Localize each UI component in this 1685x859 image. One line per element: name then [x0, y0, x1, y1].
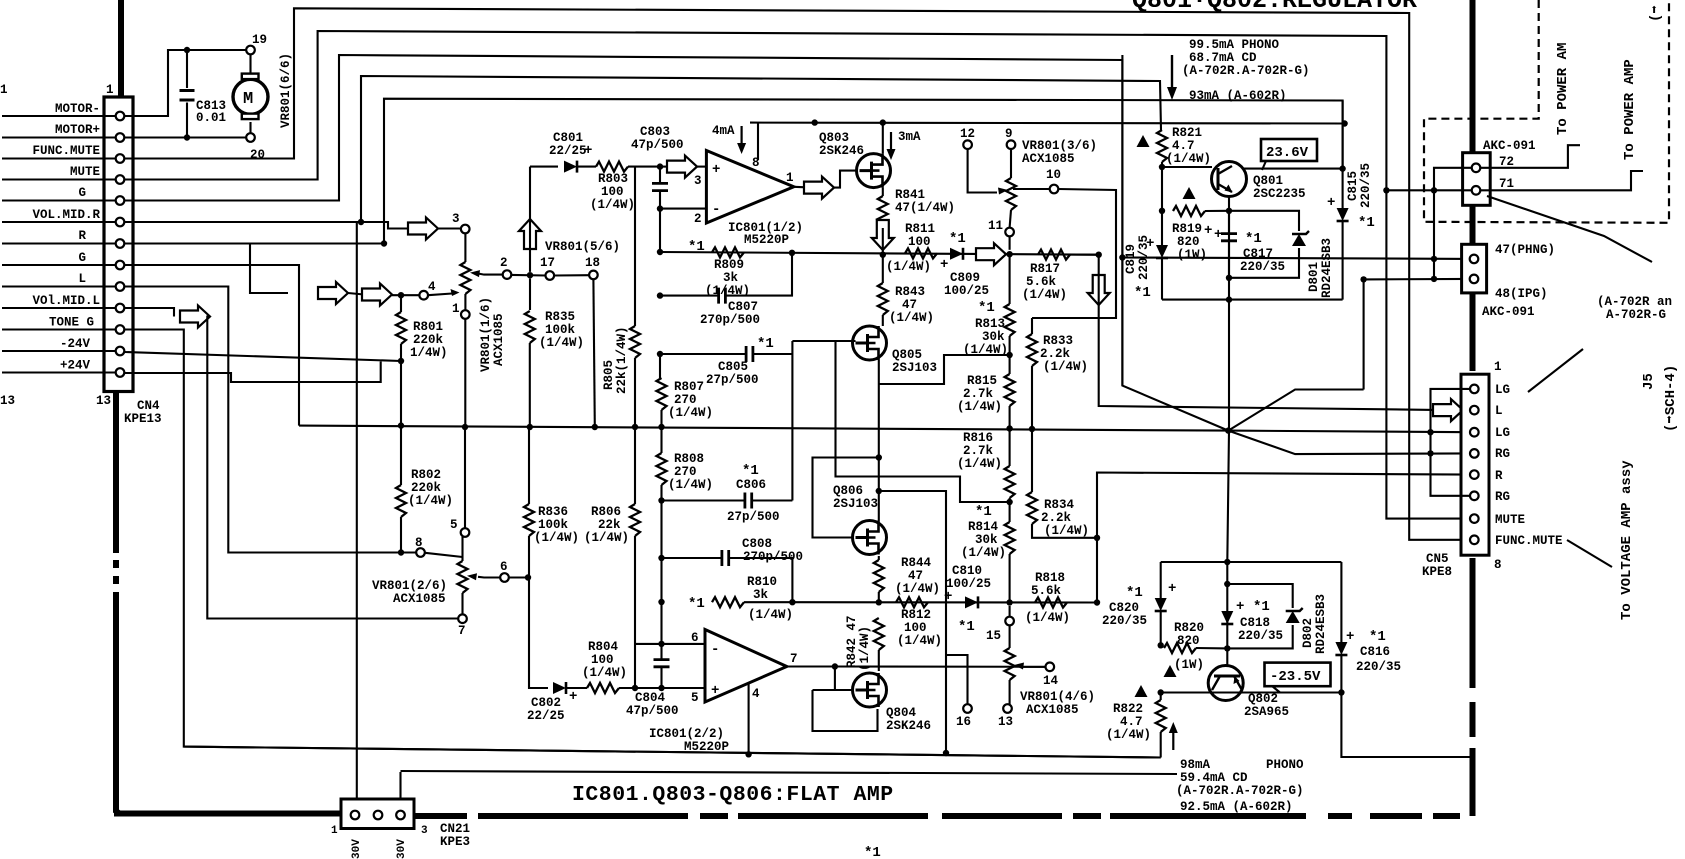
node 48 junction — [1431, 276, 1437, 282]
resistor R809 — [712, 247, 744, 257]
svg-text:VR801(3/6): VR801(3/6) — [1022, 139, 1097, 153]
wire pin2 to column node — [512, 274, 547, 277]
svg-text:20: 20 — [250, 148, 265, 162]
pin 3 of VR801(1/6) — [461, 225, 470, 234]
CN5 pin 1 LG — [1470, 385, 1479, 394]
wire Q805 gate column — [836, 341, 1010, 502]
svg-text:30k: 30k — [975, 533, 998, 547]
svg-text:13: 13 — [96, 394, 111, 408]
svg-text:47: 47 — [902, 298, 917, 312]
svg-text:68.7mA CD: 68.7mA CD — [1189, 51, 1257, 65]
node R806 bus junction — [632, 424, 638, 430]
wiper 2 wire with arrowhead into pot — [478, 274, 503, 275]
svg-text:100: 100 — [908, 235, 931, 249]
CN4 pin 12 (-24V) — [116, 347, 125, 356]
svg-text:(1/4W): (1/4W) — [408, 494, 453, 508]
wire L output to CN5 — [1099, 255, 1434, 410]
capacitor C807 — [660, 253, 792, 304]
svg-text:*1: *1 — [975, 504, 992, 520]
node C808 left junction — [658, 555, 664, 561]
wire output down to Q804 gate — [834, 667, 836, 691]
svg-text:220/35: 220/35 — [1356, 660, 1401, 674]
svg-text:Q806: Q806 — [833, 484, 863, 498]
node R816 R814 junction — [1006, 499, 1012, 505]
node R821 bottom junction — [1159, 164, 1165, 170]
svg-text:R835: R835 — [545, 310, 575, 324]
wire MOTOR+ to motor bottom — [125, 136, 247, 138]
pin 13 of VR801(4/6) — [1003, 704, 1012, 713]
node Q803 column bus junction — [880, 252, 886, 258]
wire Q805 source to R815 — [879, 355, 1010, 384]
svg-text:FUNC.MUTE: FUNC.MUTE — [1495, 534, 1563, 548]
node C804 bottom junction — [658, 685, 664, 691]
node 47 junction — [1431, 256, 1437, 262]
zener D801 RD24ESB3 — [1229, 211, 1309, 278]
wire Q806 drain branch — [879, 491, 946, 753]
svg-text:R805: R805 — [602, 360, 616, 390]
node feed junction 71 — [1431, 187, 1437, 193]
capacitor C803 — [652, 167, 668, 252]
svg-text:VR801(6/6): VR801(6/6) — [279, 53, 293, 128]
block arrow after C809 — [976, 243, 1006, 265]
svg-text:(1/4W): (1/4W) — [748, 608, 793, 622]
wire -24V route to bias column — [125, 352, 402, 361]
svg-text:27p/500: 27p/500 — [706, 373, 759, 387]
wire Q802 base — [1226, 648, 1228, 666]
svg-text:R815: R815 — [967, 374, 997, 388]
svg-text:C820: C820 — [1109, 601, 1139, 615]
wire Q803 drain to rail — [882, 123, 884, 154]
wire L to VR801(2/6) input 8 — [125, 287, 417, 553]
svg-text:C801: C801 — [553, 131, 583, 145]
resistor R815 — [1005, 355, 1015, 429]
svg-text:*1: *1 — [1358, 215, 1375, 231]
svg-text:(1/4W): (1/4W) — [886, 260, 931, 274]
node R813 top junction — [1006, 251, 1012, 257]
svg-text:RG: RG — [1495, 490, 1510, 504]
svg-text:*1: *1 — [1134, 285, 1151, 301]
wire X cross diagonal right — [1228, 431, 1470, 455]
wire +24V route — [125, 362, 381, 383]
svg-text:22/25: 22/25 — [527, 709, 565, 723]
heavy board border bottom solid segment — [114, 811, 341, 817]
resistor R806 — [630, 427, 640, 688]
svg-text:To POWER AMP: To POWER AMP — [1622, 59, 1638, 160]
svg-text:15: 15 — [986, 629, 1001, 643]
svg-text:RD24ESB3: RD24ESB3 — [1320, 238, 1334, 298]
svg-text:C809: C809 — [950, 271, 980, 285]
svg-text:1/4W): 1/4W) — [410, 346, 448, 360]
svg-text:R836: R836 — [538, 505, 568, 519]
node collector junction — [1339, 165, 1345, 171]
svg-text:AKC-091: AKC-091 — [1482, 305, 1535, 319]
wire pin10 to R833 column — [1032, 189, 1116, 318]
capacitor C809 polarized — [950, 248, 963, 260]
wire op-amp1 plus input — [660, 166, 668, 168]
node output junction — [832, 663, 838, 669]
CN21 pin 1 — [351, 811, 360, 820]
wire X cross diagonal up — [1228, 390, 1363, 431]
svg-text:(1/4W): (1/4W) — [961, 546, 1006, 560]
svg-text:G: G — [78, 186, 86, 200]
resistor R814 — [1005, 522, 1015, 603]
node C803 top junction — [657, 163, 663, 169]
CN4 pin 7 (R) — [116, 239, 125, 248]
svg-text:(1/4W): (1/4W) — [534, 531, 579, 545]
pin 5 of VR801(2/6) — [461, 528, 470, 537]
svg-text:220/35: 220/35 — [1238, 629, 1283, 643]
svg-text:R833: R833 — [1043, 334, 1073, 348]
wire op-amp2 minus input — [635, 643, 705, 645]
wiper arrowhead left VR801(1/6) — [451, 289, 460, 296]
svg-text:IC801(2/2): IC801(2/2) — [649, 727, 724, 741]
svg-text:ACX1085: ACX1085 — [1022, 152, 1075, 166]
wire MOTOR- to pin 19 — [125, 50, 247, 116]
node emitter R819 junction — [1226, 208, 1232, 214]
svg-text:(1/4W): (1/4W) — [889, 311, 934, 325]
svg-text:R801: R801 — [413, 320, 443, 334]
node bracket RG4 — [1427, 450, 1433, 456]
svg-text:100/25: 100/25 — [944, 284, 989, 298]
svg-text:C808: C808 — [742, 537, 772, 551]
wire output bus second channel — [792, 601, 1097, 603]
svg-text:AKC-091: AKC-091 — [1483, 139, 1536, 153]
svg-text:(1W): (1W) — [1174, 658, 1204, 672]
wire R821 node down to R819 — [1161, 167, 1163, 211]
wiper arrowhead VR801(4/6) — [1014, 663, 1024, 670]
pin 15 of VR801(4/6) — [1005, 617, 1014, 626]
node bracket LG3 — [1427, 429, 1433, 435]
node R801 top junction — [398, 292, 404, 298]
svg-text:TONE G: TONE G — [49, 316, 94, 330]
svg-text:(1/4W): (1/4W) — [895, 582, 940, 596]
svg-text:(1/4W): (1/4W) — [1022, 288, 1067, 302]
svg-text:13: 13 — [998, 715, 1013, 729]
wire Q806 gate loop — [813, 458, 879, 538]
svg-text:(1/4W): (1/4W) — [897, 634, 942, 648]
svg-text:MOTOR-: MOTOR- — [55, 102, 100, 116]
CN4 pin 4 (MUTE) — [116, 175, 125, 184]
capacitor C808 — [662, 550, 793, 602]
svg-text:R810: R810 — [747, 575, 777, 589]
svg-text:+: + — [1204, 223, 1212, 239]
resistor R844 — [874, 556, 884, 602]
svg-text:(➡SCH-4): (➡SCH-4) — [1663, 365, 1679, 432]
svg-text:3k: 3k — [753, 588, 769, 602]
svg-text:1: 1 — [331, 825, 338, 837]
block arrow to pot pin 3 — [408, 218, 438, 240]
svg-text:3: 3 — [694, 174, 702, 188]
node Q803 drain rail junction — [880, 119, 886, 125]
svg-text:30V: 30V — [396, 839, 408, 859]
svg-text:8: 8 — [1494, 558, 1502, 572]
resistor R802 — [396, 426, 406, 553]
svg-text:VR801(1/6): VR801(1/6) — [479, 297, 493, 372]
svg-text:M5220P: M5220P — [744, 233, 789, 247]
svg-text:To POWER AM: To POWER AM — [1555, 43, 1571, 135]
wire bottom return line — [401, 771, 1178, 774]
svg-text:23.6V: 23.6V — [1266, 145, 1309, 161]
svg-text:+: + — [1214, 227, 1222, 243]
wire op-amp2 pin4 stub — [748, 684, 750, 755]
svg-text:100: 100 — [904, 621, 927, 635]
op-amp U1 IC801(2/2) — [705, 630, 787, 703]
node bus junction at x465 — [462, 424, 468, 430]
wire between arrows — [348, 293, 364, 295]
svg-text:6: 6 — [691, 631, 699, 645]
svg-text:+: + — [569, 689, 577, 705]
svg-text:18: 18 — [585, 256, 600, 270]
svg-text:RD24ESB3: RD24ESB3 — [1314, 594, 1328, 654]
svg-text:(1/4W): (1/4W) — [1043, 360, 1088, 374]
wire emitter to lower regulator — [1227, 431, 1229, 649]
pin 18 mute contact — [589, 271, 598, 280]
svg-text:R818: R818 — [1035, 571, 1065, 585]
svg-text:*1: *1 — [1126, 585, 1143, 601]
svg-text:ACX1085: ACX1085 — [1026, 703, 1079, 717]
resistor R816 — [1005, 429, 1015, 523]
svg-text:+: + — [1146, 236, 1154, 252]
svg-text:R819: R819 — [1172, 222, 1202, 236]
resistor R820 — [1164, 643, 1227, 653]
wire column C801 feed — [529, 167, 531, 310]
wire op-amp2 output — [787, 665, 835, 667]
wire pin8 supply stub — [757, 123, 759, 160]
svg-text:7: 7 — [790, 652, 798, 666]
svg-text:A-702R-G: A-702R-G — [1606, 308, 1666, 322]
svg-text:820: 820 — [1177, 235, 1200, 249]
wire pin16 up — [946, 655, 968, 704]
wire Q804 gate stub — [813, 689, 853, 691]
node R842 top bus junction — [876, 599, 882, 605]
capacitor C810 polarized — [965, 596, 978, 608]
svg-text:22/25: 22/25 — [549, 144, 587, 158]
CN21 pin 3 — [396, 811, 405, 820]
wire FUNC.MUTE long route to CN5 pin8 — [125, 8, 1471, 540]
wire 71 diagonal off — [1487, 196, 1652, 262]
node wire18 bus junction — [592, 424, 598, 430]
callout line to voltage amp — [1528, 349, 1583, 392]
svg-text:*1: *1 — [1245, 231, 1262, 247]
svg-text:FUNC.MUTE: FUNC.MUTE — [32, 144, 100, 158]
current arrow 4mA — [737, 126, 746, 154]
wire R841 to bus junction — [882, 228, 884, 255]
svg-text:*1: *1 — [742, 463, 759, 479]
block arrow 2 on R path — [362, 284, 392, 306]
wire Q801 emitter down — [1228, 197, 1230, 431]
resistor R843 — [878, 255, 888, 326]
pin 9 of VR801(3/6) — [1007, 140, 1016, 149]
svg-text:D801: D801 — [1307, 262, 1321, 292]
resistor R803 — [596, 162, 660, 172]
wire VOL.MID.L to VR801(2/6) pin7 — [125, 308, 175, 317]
svg-text:-24V: -24V — [60, 337, 91, 351]
op-amp U1 IC801(1/2) — [706, 151, 793, 224]
svg-text:5.6k: 5.6k — [1026, 275, 1057, 289]
svg-text:KPE8: KPE8 — [1422, 565, 1452, 579]
wire wiper pin14 — [1022, 666, 1045, 668]
svg-text:R812: R812 — [901, 608, 931, 622]
node R834 R818 junction — [1094, 535, 1100, 541]
wire R stub — [2, 242, 116, 244]
pin 10 of VR801(3/6) — [1050, 185, 1059, 194]
pin 1 of VR801(1/6) — [461, 310, 470, 319]
svg-text:2SK246: 2SK246 — [819, 144, 864, 158]
node C807 left junction — [657, 292, 663, 298]
svg-text:ACX1085: ACX1085 — [492, 313, 506, 366]
CN5 pin 6 RG — [1470, 492, 1479, 501]
block arrow on VOL.MID.L path — [180, 306, 210, 328]
svg-text:IC801.Q803-Q806:FLAT AMP: IC801.Q803-Q806:FLAT AMP — [572, 783, 894, 807]
warning triangle R822 upper — [1164, 665, 1177, 677]
svg-text:100: 100 — [591, 653, 614, 667]
node C820 R820 junction — [1158, 642, 1164, 648]
node R809 right junction — [789, 250, 795, 256]
svg-text:48(IPG): 48(IPG) — [1495, 287, 1548, 301]
pin 4 of VR801(1/6) — [419, 291, 428, 300]
svg-text:270p/500: 270p/500 — [743, 550, 803, 564]
svg-text:1: 1 — [1494, 360, 1502, 374]
svg-text:270p/500: 270p/500 — [700, 313, 760, 327]
wire R821 to Q801 base — [1162, 166, 1212, 168]
wire C816 column to bottom line — [1341, 693, 1471, 758]
pin 6 of VR801(2/6) — [500, 573, 509, 582]
svg-text:J5: J5 — [1641, 373, 1657, 390]
pin 7 of VR801(2/6) — [458, 614, 467, 623]
wire Q805 gate stub — [792, 340, 855, 342]
wire op-amp V+ rail — [750, 122, 1345, 125]
svg-text:*1: *1 — [949, 231, 966, 247]
svg-text:R843: R843 — [895, 285, 925, 299]
CN21 pin 2 — [374, 811, 383, 820]
node bottom rail right junction — [1338, 689, 1344, 695]
resistor R808 — [657, 427, 667, 644]
block arrow down L output — [1088, 275, 1110, 305]
svg-text:220/35: 220/35 — [1102, 614, 1147, 628]
node feed mute junction — [1383, 187, 1389, 193]
capacitor C806 — [662, 493, 793, 509]
callout line lower — [1567, 540, 1612, 567]
svg-text:R811: R811 — [905, 222, 935, 236]
regulator bottom rail — [1162, 299, 1343, 301]
motor M — [233, 74, 268, 120]
wire 71 stub — [1386, 189, 1471, 191]
lower regulator bottom rail — [1161, 691, 1342, 693]
svg-text:Q801: Q801 — [1253, 174, 1283, 188]
wire VOL.MID.L vertical to pin7 — [207, 317, 458, 619]
svg-text:Q805: Q805 — [892, 348, 922, 362]
CN4 pin 3 (FUNC.MUTE) — [116, 154, 125, 163]
svg-text:MUTE: MUTE — [70, 165, 100, 179]
node -24V bias junction — [398, 358, 404, 364]
capacitor C817 — [1221, 211, 1237, 278]
svg-text:14: 14 — [1043, 674, 1059, 688]
wiper arrowhead VR801(3/6) — [998, 188, 1008, 195]
svg-text:11: 11 — [988, 219, 1003, 233]
heavy board border bottom dashed segment — [415, 813, 1460, 819]
resistor R842 — [874, 618, 884, 671]
svg-text:+: + — [1327, 195, 1335, 211]
CN5 pin 5 R — [1470, 470, 1479, 479]
wire +24V stub — [2, 371, 116, 373]
svg-text:-: - — [712, 202, 720, 218]
resistor R841 — [878, 188, 888, 228]
block arrow into CN5 L — [1433, 399, 1463, 421]
CN4 pin 1 (MOTOR-) — [116, 112, 125, 121]
svg-text:R809: R809 — [714, 258, 744, 272]
wire LG pin3 from cross to CN5 — [1228, 431, 1470, 433]
svg-text:2SA965: 2SA965 — [1244, 705, 1289, 719]
node R833 bus junction — [1029, 426, 1035, 432]
svg-text:C805: C805 — [718, 360, 748, 374]
current arrow into regulator — [1167, 55, 1177, 100]
connector AKC-091 lower box — [1462, 244, 1487, 293]
wire analog mid bus — [299, 426, 1228, 431]
svg-text:2: 2 — [694, 212, 702, 226]
svg-text:R: R — [78, 229, 86, 243]
svg-text:100: 100 — [601, 185, 624, 199]
resistor R836 — [524, 427, 548, 688]
svg-text:*1: *1 — [688, 239, 705, 255]
resistor R822 — [1156, 693, 1166, 758]
wire 17 to 18 — [554, 274, 589, 276]
svg-text:59.4mA CD: 59.4mA CD — [1180, 771, 1248, 785]
svg-text:92.5mA (A-602R): 92.5mA (A-602R) — [1180, 800, 1293, 814]
wire L stub — [2, 285, 116, 287]
svg-text:R814: R814 — [968, 520, 999, 534]
svg-text:VOl.MID.L: VOl.MID.L — [32, 294, 100, 308]
node R806 column pin5 junction — [632, 685, 638, 691]
svg-text:17: 17 — [540, 256, 555, 270]
node R814 bus junction — [1006, 599, 1012, 605]
svg-text:*1: *1 — [757, 336, 774, 352]
potentiometer VR801(2/6) body — [458, 537, 468, 614]
svg-text:(1/4W): (1/4W) — [539, 336, 584, 350]
transistor Q801 2SC2235 — [1212, 162, 1247, 197]
svg-text:MOTOR+: MOTOR+ — [55, 123, 100, 137]
svg-text:R844: R844 — [901, 556, 932, 570]
svg-text:R841: R841 — [895, 188, 925, 202]
node pin6 branch junction — [658, 641, 664, 647]
AKC pin 47 — [1470, 255, 1479, 264]
block arrow 1 on R path — [318, 282, 348, 304]
node C805 left junction — [657, 351, 663, 357]
svg-text:R807: R807 — [674, 380, 704, 394]
voltage box -23.5V — [1265, 663, 1331, 693]
svg-text:L: L — [1495, 404, 1503, 418]
svg-text:1: 1 — [452, 302, 460, 316]
resistor R805 — [630, 167, 640, 427]
svg-text:220/35: 220/35 — [1240, 260, 1285, 274]
wire 30V riser to CN21 pin1 — [356, 222, 358, 809]
svg-text:(1/4W): (1/4W) — [1025, 611, 1070, 625]
node R807 bus junction — [658, 424, 664, 430]
CN4 pin 6 (VOL.MID.R) — [116, 218, 125, 227]
zener D802 RD24ESB3 — [1227, 584, 1302, 648]
svg-text:(1/4W): (1/4W) — [1166, 152, 1211, 166]
svg-text:8: 8 — [415, 536, 423, 550]
svg-text:47p/500: 47p/500 — [626, 704, 679, 718]
svg-text:+: + — [1236, 599, 1244, 615]
svg-text:LG: LG — [1495, 383, 1510, 397]
svg-text:270: 270 — [674, 393, 697, 407]
wire CN21 pin3 riser — [399, 772, 401, 809]
svg-text:98mA: 98mA — [1180, 758, 1211, 772]
AKC pin 72 — [1472, 164, 1481, 173]
svg-text:C804: C804 — [635, 691, 666, 705]
svg-text:47(PHNG): 47(PHNG) — [1495, 243, 1555, 257]
svg-text:(1/4W): (1/4W) — [957, 457, 1002, 471]
